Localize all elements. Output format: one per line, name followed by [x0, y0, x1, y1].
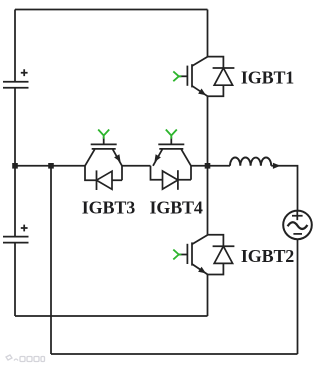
- diode D3 anti-parallel: [85, 166, 122, 190]
- wire IGBT1 collector drop: [207, 10, 209, 57]
- wire left rail middle: [14, 88, 16, 236]
- diode D1 anti-parallel: [208, 57, 235, 97]
- diode D2 anti-parallel: [208, 235, 235, 275]
- svg-text:IGBT3: IGBT3: [82, 197, 135, 217]
- gate lead IGBT1: [173, 71, 187, 81]
- gate lead IGBT3: [98, 130, 109, 145]
- wire mid bus left: [15, 165, 85, 167]
- capacitor C2: [3, 225, 29, 243]
- current arrow after inductor: [273, 163, 281, 169]
- watermark (decorative, faint): [6, 355, 45, 362]
- inductor L1: [230, 158, 271, 166]
- wire bottom bus: [15, 315, 208, 317]
- svg-text:IGBT1: IGBT1: [241, 68, 294, 88]
- node left-rail/mid-bus junction: [12, 163, 18, 169]
- wire between IGBT3 and IGBT4: [122, 165, 151, 167]
- transistor IGBT3: [85, 144, 122, 165]
- wire AC return bottom: [51, 353, 298, 355]
- wire AC return drop: [50, 166, 52, 354]
- transistor IGBT1: [187, 57, 207, 96]
- AC source VS1: [283, 211, 312, 240]
- transistor IGBT4: [153, 144, 191, 165]
- wire IGBT2 emitter to bottom bus: [207, 275, 209, 317]
- gate lead IGBT2: [173, 250, 187, 260]
- wire top rail: [15, 9, 208, 11]
- gate lead IGBT4: [166, 130, 177, 145]
- svg-text:IGBT2: IGBT2: [241, 246, 294, 266]
- wire AC source bottom lead: [297, 240, 299, 354]
- transistor IGBT2: [187, 235, 207, 274]
- wire inductor to AC corner: [271, 166, 297, 210]
- wire IGBT1 emitter to phase node: [207, 96, 209, 235]
- capacitor C1: [3, 69, 29, 88]
- wire left rail upper: [14, 10, 16, 82]
- node AC-return tap junction: [48, 163, 54, 169]
- diode D4 anti-parallel: [151, 166, 192, 190]
- node phase junction: [205, 163, 211, 169]
- svg-text:IGBT4: IGBT4: [150, 197, 203, 217]
- wire IGBT4 to phase node: [191, 165, 230, 167]
- wire left rail lower: [14, 243, 16, 316]
